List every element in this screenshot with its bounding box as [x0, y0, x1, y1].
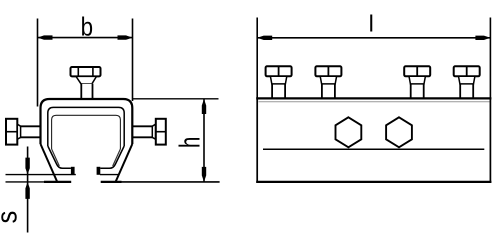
dimension s arrow down [25, 158, 29, 175]
top bolt M1 shank [81, 84, 92, 99]
body bolt 3 [404, 66, 430, 97]
svg-text:b: b [81, 13, 93, 42]
dimension h arrow top [202, 99, 206, 114]
dimension l extension line left [256, 18, 258, 99]
hex nut 1 [336, 117, 362, 147]
coupler body bottom edge [256, 181, 491, 183]
dimension h bottom extension line [122, 181, 220, 183]
left lip end [71, 167, 75, 175]
body bolt 1 [266, 66, 292, 97]
dimension l arrow right [475, 36, 490, 40]
dimension b arrow left [38, 35, 53, 39]
coupler body top edge [256, 97, 491, 99]
coupler body faint seam [259, 101, 490, 103]
dimension s arrow up [25, 182, 29, 199]
left side bolt neck [17, 124, 20, 139]
C-profile inner contour left diagonal [52, 149, 60, 166]
dimension h top extension line [133, 98, 219, 100]
dimension l arrow left [257, 36, 272, 40]
dimension l extension line right [489, 18, 491, 99]
right side bolt shank [132, 125, 152, 127]
dimension s line [27, 147, 29, 233]
C-profile mid contour [48, 107, 124, 146]
left foot top line + s extension [6, 174, 76, 176]
dimension b extension line left [37, 19, 39, 107]
coupler body outline [257, 98, 490, 181]
svg-text:s: s [0, 211, 23, 224]
left foot bottom line + s extension [6, 181, 45, 183]
right foot top line [100, 174, 118, 176]
C-profile outer chamfer left [41, 144, 58, 181]
hex nut 2 [386, 117, 412, 147]
svg-text:l: l [369, 10, 374, 36]
C-profile mid contour right lip lead [100, 146, 124, 168]
C-profile inner contour right diagonal [113, 149, 121, 166]
C-profile inner contour [52, 115, 121, 149]
coupler body groove line [263, 148, 484, 150]
C-profile outer chamfer right [116, 144, 133, 181]
dimension l line [257, 37, 490, 39]
dimension h line [203, 99, 205, 182]
right side bolt neck [152, 124, 155, 139]
top bolt M1 head [71, 67, 101, 76]
dimension b extension line right [132, 19, 134, 102]
dimension b arrow right [118, 35, 133, 39]
right lip end [97, 167, 101, 175]
right side bolt head facet line [156, 131, 166, 133]
C-profile outer contour [41, 99, 133, 144]
dimension b line [38, 37, 133, 39]
right side bolt head [156, 119, 166, 145]
body bolt 4 [454, 66, 480, 97]
left side bolt head facet line [7, 131, 18, 133]
left side bolt head [6, 119, 17, 145]
C-profile mid contour left lip lead [48, 146, 71, 168]
top bolt M1 head facet lines [77, 68, 79, 77]
dimension h arrow bottom [202, 167, 206, 182]
left side bolt shank [21, 125, 41, 127]
right foot bottom line [101, 181, 122, 183]
svg-text:h: h [174, 137, 206, 148]
top bolt M1 neck [76, 76, 97, 83]
body bolt 2 [315, 66, 341, 97]
